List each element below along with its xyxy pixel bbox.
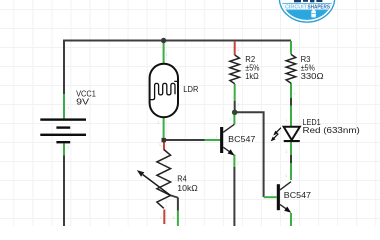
svg-text:2: 2 — [294, 92, 296, 96]
svg-text:9V: 9V — [76, 97, 89, 107]
svg-text:BC547: BC547 — [228, 134, 255, 144]
svg-text:BC547: BC547 — [284, 190, 311, 200]
svg-text:CIRCUIT: CIRCUIT — [285, 5, 308, 11]
svg-text:2: 2 — [237, 103, 239, 107]
svg-text:1: 1 — [160, 216, 162, 220]
svg-text:2: 2 — [68, 146, 70, 150]
svg-text:330Ω: 330Ω — [301, 71, 324, 81]
svg-text:1: 1 — [271, 193, 273, 197]
svg-text:LDR: LDR — [183, 84, 198, 94]
svg-text:1kΩ: 1kΩ — [245, 71, 258, 81]
svg-text:2: 2 — [286, 150, 288, 154]
svg-text:1: 1 — [294, 47, 296, 51]
svg-text:2: 2 — [237, 162, 239, 166]
svg-text:2: 2 — [293, 218, 295, 222]
svg-text:Red (633nm): Red (633nm) — [303, 125, 360, 135]
svg-text:10kΩ: 10kΩ — [177, 183, 198, 193]
svg-text:1: 1 — [68, 106, 70, 110]
svg-text:1: 1 — [216, 135, 218, 139]
svg-text:SHAPERS: SHAPERS — [308, 5, 331, 11]
svg-text:3: 3 — [173, 216, 175, 220]
svg-text:1: 1 — [286, 119, 288, 123]
svg-text:1: 1 — [237, 48, 239, 52]
svg-text:1: 1 — [166, 53, 168, 57]
svg-text:2: 2 — [158, 121, 160, 125]
svg-text:1: 1 — [159, 143, 161, 147]
svg-text:3: 3 — [285, 174, 287, 178]
svg-text:3: 3 — [230, 118, 232, 122]
